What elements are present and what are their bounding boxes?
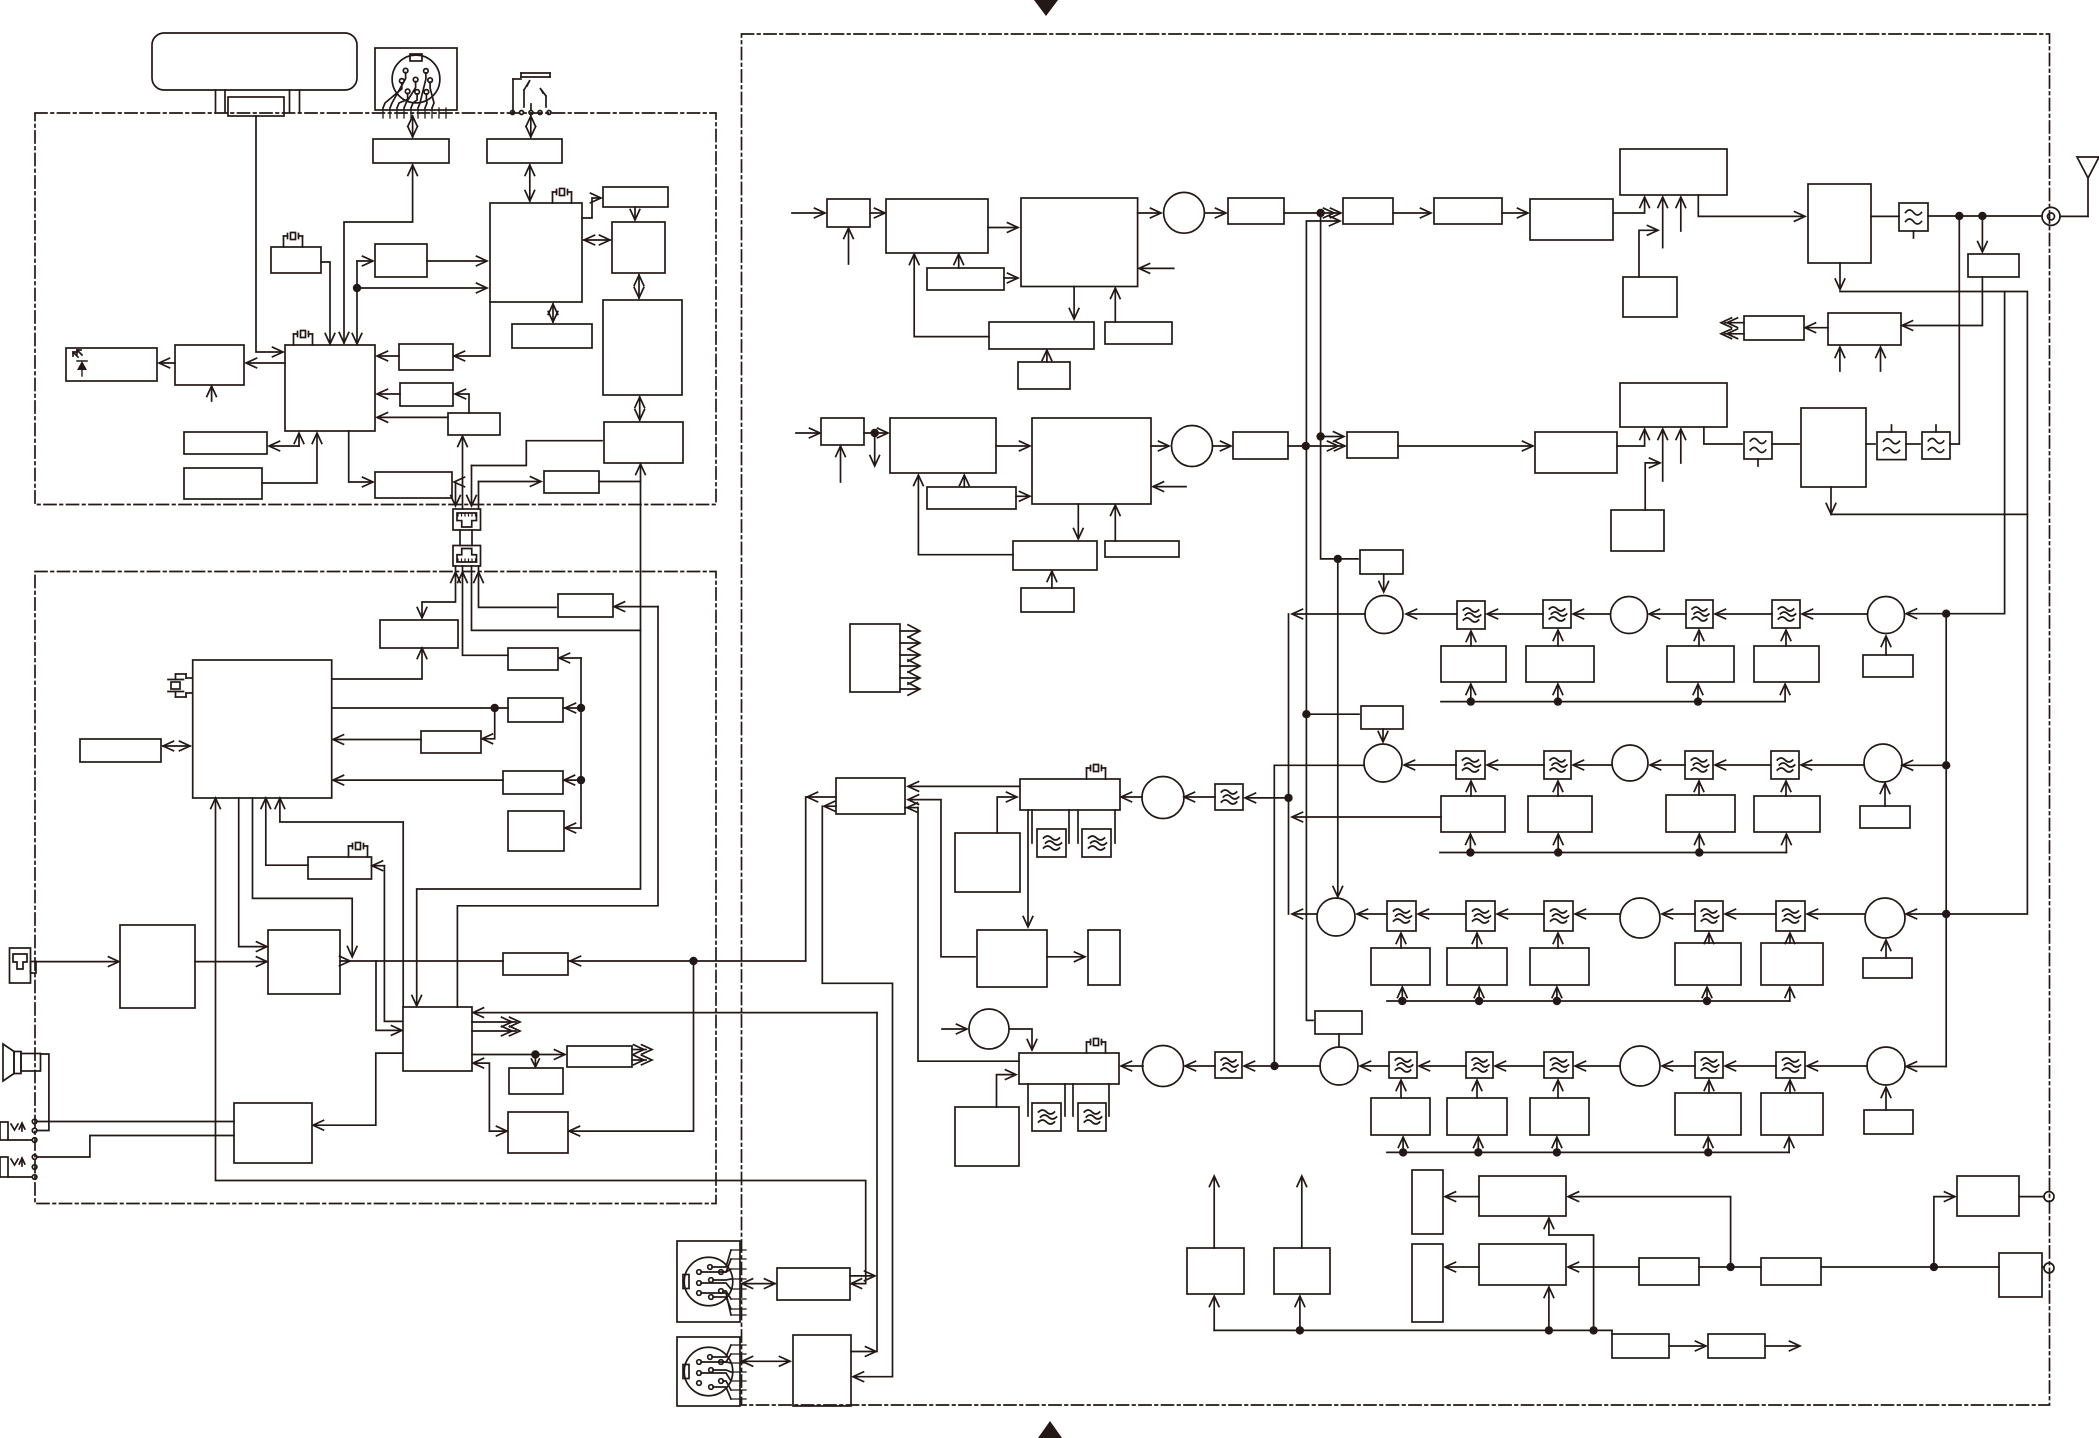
M3 output to column 1289 [1293, 613, 1365, 615]
VCO box S3 [1032, 418, 1151, 504]
mixer Ms [1867, 1047, 1905, 1085]
mixer M9 [1143, 1046, 1184, 1087]
crystal on D2a [1094, 765, 1099, 772]
crystal on D4 [1094, 1039, 1099, 1046]
bus row4 [1387, 1151, 1789, 1153]
box V2 [604, 422, 683, 463]
box OO [508, 1112, 568, 1153]
mixer Ma [1317, 898, 1355, 936]
connector column v3 [472, 441, 603, 466]
wire P3 to P4 [1699, 1266, 1761, 1268]
box HH [508, 811, 564, 851]
filter FB43 [1544, 1052, 1573, 1078]
crystal on Q left [171, 682, 180, 689]
box LL [234, 1103, 312, 1163]
audio power IC Q [193, 660, 332, 798]
APC box B7 [1611, 510, 1664, 551]
filter F1 [1228, 198, 1284, 224]
LED driver box [175, 345, 244, 385]
box G5 [1754, 646, 1819, 682]
G1 to M3 [1383, 574, 1385, 591]
column 1338 down to mixer row3 [1337, 559, 1339, 896]
box D7 [955, 833, 1020, 892]
box I (memory) [612, 222, 665, 273]
wire E to C2 [455, 302, 490, 356]
filter FB1 [1457, 601, 1485, 629]
wire DIN to modulator [412, 116, 414, 137]
wire dot to Mq [1275, 1065, 1321, 1067]
wire B3 down right [1839, 263, 1841, 288]
wire E2 up [851, 1351, 875, 1353]
amp box E1 [777, 1268, 850, 1300]
wire FL4 up to antenna line [1950, 216, 1959, 444]
wire net to FF right [483, 708, 495, 739]
amp F2 [1343, 198, 1393, 224]
filter FBc [1032, 1103, 1061, 1131]
mixer M1 [1164, 192, 1205, 233]
amp F3 [1434, 198, 1502, 224]
crystal X4 on EE [356, 843, 361, 850]
node wiring B/E/CPU [357, 260, 372, 262]
wire FF to Q [334, 739, 421, 741]
box G4 [1667, 646, 1734, 682]
box Gz5 [1761, 1093, 1823, 1135]
box Gz4 [1675, 1093, 1741, 1135]
wire CC to BB [195, 961, 266, 963]
tap from column 1320 [1321, 436, 1343, 438]
filter FB45 [1776, 1052, 1805, 1078]
page continuation marker bottom [1038, 1421, 1062, 1438]
wire D1 to D4 row [918, 808, 1019, 1062]
stub into driver bottom [211, 387, 213, 401]
reference bus [1214, 1329, 1612, 1331]
filter FB3 [1772, 600, 1800, 628]
mixer M2 [1172, 426, 1213, 467]
antenna feed line [1928, 215, 2042, 217]
amp box E2 [793, 1335, 851, 1406]
wire T1 to B4 [1903, 277, 1982, 326]
box T [380, 620, 458, 648]
mic line from jack1 [37, 1121, 234, 1123]
box Q2 [1274, 1248, 1330, 1294]
second input to F2 [1306, 221, 1339, 446]
connector lines below [422, 566, 456, 617]
wire col1289 to FB5 [1246, 797, 1289, 799]
wire D3 to D1 [909, 800, 975, 957]
wire O to CPU [262, 434, 317, 483]
mixer M14 [1864, 744, 1902, 782]
box G2 [1441, 646, 1506, 682]
box G7 [1526, 646, 1594, 682]
wire S to CPU [378, 416, 448, 418]
bus row3 [1387, 1000, 1790, 1002]
wire Q to T [332, 649, 422, 679]
box Gx1 [1441, 796, 1505, 832]
box S5 (PLL) [1013, 541, 1097, 570]
wire P7 to P8 [1669, 1345, 1705, 1347]
box P4 [1761, 1258, 1821, 1285]
long wire from DIN amp to II [474, 1012, 877, 1014]
box B4 [1828, 313, 1901, 345]
jack (speaker/phones) [521, 72, 550, 74]
wire AA to Q [163, 745, 190, 747]
box Gy3 [1530, 948, 1589, 985]
VCO box R3 [1021, 198, 1138, 287]
wire U1 to H [582, 198, 600, 218]
DSP box II [403, 1007, 472, 1071]
filter FB1b [1543, 600, 1571, 628]
ACC DIN connector 2 [677, 1337, 740, 1406]
box D6 [955, 1107, 1019, 1166]
box Y [508, 648, 558, 670]
wire P4 to P5 [1821, 1266, 1999, 1268]
column 1306 [1306, 446, 1313, 1020]
filter FBz [1685, 751, 1713, 779]
photodiode symbol [77, 361, 87, 370]
wire U1 to K [552, 304, 554, 322]
wire W to V2 [599, 481, 641, 483]
speaker symbol [3, 1044, 14, 1081]
RJ45 connector lower [453, 546, 481, 567]
box Gy1 [1371, 948, 1430, 985]
vertical 877 [876, 1013, 878, 1352]
wire II column to Q [280, 799, 403, 1007]
speaker wire to jack [37, 1054, 49, 1131]
wire Gx1 to column 1289 [1293, 816, 1441, 818]
box Gx4 [1754, 796, 1820, 832]
wire EE to Q [266, 799, 308, 865]
box FF [421, 731, 481, 753]
main unit section border [35, 572, 716, 1204]
driver F7 [1535, 432, 1617, 473]
box B (reset) [375, 244, 427, 277]
wire Q to BB [239, 798, 266, 947]
wire to D1 via 806 [806, 797, 836, 961]
filter FB44 [1695, 1052, 1723, 1078]
filter FL4 [1922, 432, 1950, 459]
IR LED box [66, 348, 157, 381]
box JJ [503, 953, 568, 975]
wire R2 to CPU [378, 393, 400, 395]
front panel unit section border [35, 113, 716, 505]
page continuation marker top [1034, 0, 1058, 16]
PA box B6 [1620, 383, 1727, 427]
wire Q to bus junction [253, 798, 353, 956]
box J [603, 300, 682, 395]
mixer Mc [1865, 898, 1905, 938]
mixer Mb [1620, 898, 1660, 938]
box AA [80, 739, 161, 762]
mixer M3 [1365, 596, 1403, 634]
box D5 [1088, 930, 1120, 985]
RJ45 jack left (packet) [10, 948, 31, 983]
filter FB41 [1389, 1052, 1417, 1078]
driver F4 [1530, 199, 1613, 240]
wire J to V2 [639, 397, 641, 420]
wire Q-Z net y708 [332, 707, 508, 709]
antenna [2077, 157, 2099, 178]
display board [228, 97, 284, 116]
ant switch B3 [1808, 184, 1871, 263]
column 1275 [1273, 765, 1275, 1066]
box R5 (PLL IC) [989, 322, 1094, 349]
box Gx5 [1860, 806, 1910, 828]
box W [544, 471, 599, 493]
bus row1 [1441, 701, 1785, 703]
mic line to DIN amp [216, 1122, 866, 1284]
box P5 [1999, 1253, 2042, 1297]
ceramic filters under D4 [1027, 1084, 1029, 1116]
wire II to OO [474, 1063, 489, 1131]
wire column1946 to M14 [1903, 764, 1946, 766]
bus row2 [1440, 852, 1786, 854]
wire to HH [566, 827, 581, 829]
connector column v1 [455, 482, 457, 505]
crystal X1 on CPU [301, 331, 306, 338]
box R6 (TCXO) [1018, 362, 1070, 389]
ant switch B8 [1801, 408, 1866, 487]
filter FBw [1771, 751, 1799, 779]
box KK [567, 1046, 632, 1067]
box S (interface) [448, 413, 500, 435]
RJ45 connector upper [453, 509, 481, 530]
filter FBb [1082, 829, 1111, 857]
wire D2a to D3 [1027, 810, 1029, 926]
wire F1 to F2 with tap [1284, 212, 1340, 214]
wire GG to Q [334, 779, 503, 781]
box R2 [400, 383, 453, 406]
vertical 640 [417, 464, 641, 1005]
box H (regulator) [603, 187, 668, 207]
wire dot to FB6 [1245, 1065, 1275, 1067]
filter FB32 [1466, 901, 1495, 931]
wire B6 to FL2 [1704, 427, 1742, 444]
mixer Mb2 [1620, 1046, 1660, 1086]
audio box [487, 139, 562, 163]
wire to P1 right [1569, 1197, 1731, 1267]
wire C2 to CPU [378, 355, 399, 357]
filter FB34 [1695, 901, 1723, 931]
mixer Mq [1320, 1047, 1358, 1085]
box G6 [1863, 655, 1913, 677]
box P8 [1708, 1334, 1765, 1358]
wire to T1 [1981, 216, 1983, 251]
box Q1 [1187, 1248, 1244, 1294]
filter FL2 [1744, 432, 1772, 459]
box P3 [1639, 1258, 1699, 1285]
filter FB42 [1466, 1052, 1493, 1078]
wire mic amp to CPU [344, 165, 413, 343]
wire audio box to main IC [529, 165, 531, 201]
main IC U1 [490, 203, 582, 302]
filter FB2 [1686, 600, 1713, 628]
wire display to CPU [256, 116, 282, 352]
wire CPU to driver [247, 362, 285, 364]
connector column v2 [462, 436, 464, 509]
vertical 658 [457, 607, 658, 1007]
connector column v4 [478, 482, 480, 510]
wire B8 down [1830, 487, 1832, 513]
box R4 [927, 268, 1004, 290]
filter FB5 [1215, 784, 1243, 810]
column 1320 to G1 [1321, 213, 1358, 559]
filter FBa [1037, 829, 1066, 857]
vertical 384 to II [384, 866, 402, 1022]
branch to II left [376, 961, 401, 1030]
box NN [509, 1068, 563, 1094]
box Gz3 [1530, 1098, 1589, 1135]
box G1 [1360, 550, 1403, 574]
filter FB35 [1776, 901, 1805, 931]
wire D6 to D4 [997, 1075, 1016, 1107]
box D3 [977, 930, 1047, 987]
mic mute box R1 [827, 199, 870, 227]
wire to Y right [560, 657, 581, 659]
amp F6 [1347, 432, 1398, 458]
column 1289 [1288, 614, 1290, 914]
mod box S2 [890, 418, 996, 473]
APC box B2 [1623, 277, 1677, 317]
vertical 581 [580, 658, 582, 828]
box S6 [1021, 588, 1074, 612]
vertical to OO [570, 961, 694, 1131]
box S4 [927, 487, 1016, 509]
branch to G3 [1306, 713, 1359, 715]
wire up to P6 [1934, 1197, 1954, 1267]
box Gq above Mq [1315, 1011, 1362, 1034]
box Gz1 [1371, 1098, 1430, 1135]
filter FB31 [1387, 901, 1416, 931]
IF IC D4 [1019, 1053, 1119, 1084]
wire D7 to D2a [997, 797, 1016, 833]
column 1946 [1945, 614, 1947, 1067]
coax connector [2042, 207, 2060, 225]
LCD display module [152, 33, 357, 90]
box Z [508, 698, 563, 722]
mod box R2 [886, 199, 988, 253]
box S7 [1105, 541, 1179, 557]
phone jack 2 [0, 1157, 8, 1177]
wire DIN1 to amp E1 [742, 1283, 775, 1285]
tall box TB2 [1412, 1244, 1443, 1322]
box Gy6 [1863, 958, 1912, 978]
filter FB6 [1215, 1052, 1242, 1078]
box GG [503, 771, 563, 794]
crystal osc box [271, 247, 321, 273]
wire to X right [615, 606, 658, 608]
crystal X2 on U1 [560, 189, 565, 196]
filter FBy [1544, 751, 1571, 779]
DIN connector (mic) [375, 48, 457, 110]
wire B to U1 [427, 260, 486, 262]
filter FL3 [1877, 432, 1906, 460]
box Gx2 [1528, 796, 1592, 832]
wire D2a to D1 [909, 785, 1020, 787]
wire driver to LED [160, 362, 175, 364]
mixer M8 [969, 1009, 1009, 1049]
box P6 [1957, 1176, 2019, 1216]
wire CPU to P [349, 431, 372, 482]
filter FB33 [1544, 901, 1573, 931]
mixer M12 [1364, 744, 1402, 782]
wire osc to CPU [321, 262, 330, 343]
wire DIN2 to amp E2 [742, 1360, 790, 1362]
mic line up to Q [215, 799, 217, 1122]
wire II to KK [472, 1054, 564, 1056]
IF IC D2a [1020, 779, 1120, 810]
box T1 [1968, 254, 2019, 277]
ACC DIN connector 1 [677, 1241, 740, 1322]
wire column1946 to Ms [1907, 1066, 1946, 1068]
box S1 [821, 418, 864, 445]
wire to GG [565, 779, 581, 781]
branch to NN [534, 1055, 536, 1067]
mic amp box [373, 139, 449, 163]
crystal X3 [291, 233, 296, 240]
wire I to J [638, 275, 640, 298]
box Gy2 [1447, 948, 1507, 985]
wire D1 to E2 [822, 806, 892, 1376]
bus BB to JJ [340, 960, 503, 962]
box B5 [1744, 316, 1804, 340]
box P [375, 472, 452, 498]
wire to ref connector [2042, 1266, 2044, 1268]
box BB [268, 930, 340, 994]
box EE [308, 857, 372, 879]
mixer M4 [1142, 777, 1184, 819]
wire II to LL [314, 1053, 403, 1125]
box P2 [1479, 1244, 1566, 1285]
filter FBd [1078, 1103, 1106, 1131]
phone jack 1 [0, 1122, 8, 1140]
wire H to I [634, 207, 636, 219]
wire to EE right [373, 865, 384, 867]
low pass filter FL1 [1899, 203, 1928, 231]
wire N node to CPU [270, 445, 299, 447]
box C2 [399, 344, 453, 370]
CPU box [285, 345, 375, 431]
box P7 [1612, 1334, 1669, 1358]
mixer M6 [1868, 597, 1905, 634]
wire jack to CC [36, 961, 118, 963]
box Gy5 [1761, 943, 1823, 985]
mixer M5 [1611, 597, 1648, 634]
RF unit section border [742, 34, 2050, 1405]
box O [184, 468, 262, 499]
filter FBx [1456, 751, 1485, 779]
PA box B1 [1620, 149, 1727, 195]
box CC [120, 925, 195, 1008]
wire jack to audio box [530, 116, 532, 137]
wire U1 to I [584, 239, 610, 241]
wire column1946 to Mc [1907, 913, 1946, 915]
accessory connector box C1 [850, 624, 900, 692]
box N [184, 432, 267, 454]
II output stubs [472, 1021, 516, 1023]
box X [558, 594, 613, 617]
wire E1 up to II [850, 1275, 874, 1277]
box Gy4 [1675, 943, 1741, 985]
box Gx3 [1666, 795, 1735, 832]
box Gz6 [1864, 1110, 1913, 1134]
wire jack2 to LL [37, 1136, 234, 1158]
KK output stubs [632, 1049, 646, 1051]
box K [512, 324, 592, 348]
box R7 [1105, 322, 1172, 344]
mixer M13 [1612, 745, 1648, 781]
box Gz2 [1447, 1098, 1507, 1135]
wire B1 to B3 [1698, 195, 1804, 216]
